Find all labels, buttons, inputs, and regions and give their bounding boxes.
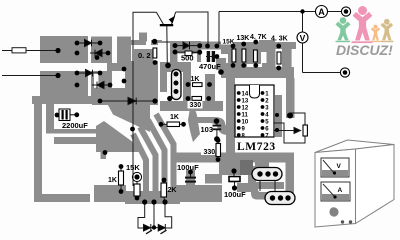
svg-text:15K: 15K bbox=[223, 39, 235, 46]
svg-text:103: 103 bbox=[201, 125, 214, 134]
svg-text:2K: 2K bbox=[168, 187, 177, 194]
svg-text:100uF: 100uF bbox=[177, 163, 199, 172]
svg-text:12: 12 bbox=[242, 105, 249, 111]
svg-text:2200uF: 2200uF bbox=[62, 121, 88, 130]
svg-text:LM723: LM723 bbox=[237, 141, 276, 153]
svg-text:330: 330 bbox=[190, 102, 202, 109]
svg-text:14: 14 bbox=[242, 91, 249, 97]
svg-text:A: A bbox=[318, 7, 325, 17]
svg-text:15K: 15K bbox=[126, 163, 140, 172]
svg-text:1K: 1K bbox=[108, 177, 117, 184]
svg-text:0. 2: 0. 2 bbox=[138, 51, 151, 60]
svg-text:A: A bbox=[338, 187, 343, 194]
svg-text:470uF: 470uF bbox=[199, 62, 221, 71]
svg-text:1K: 1K bbox=[191, 76, 200, 83]
svg-text:330: 330 bbox=[204, 149, 216, 156]
svg-text:4. 3K: 4. 3K bbox=[271, 36, 288, 43]
svg-text:4. 7K: 4. 7K bbox=[250, 34, 267, 41]
svg-text:11: 11 bbox=[242, 112, 249, 118]
svg-text:DISCUZ!: DISCUZ! bbox=[336, 42, 393, 58]
svg-text:10: 10 bbox=[242, 119, 249, 125]
svg-text:V: V bbox=[337, 163, 342, 170]
svg-text:13K: 13K bbox=[237, 35, 250, 42]
svg-text:500: 500 bbox=[181, 54, 194, 63]
svg-text:1K: 1K bbox=[170, 114, 179, 121]
svg-text:100uF: 100uF bbox=[224, 190, 246, 199]
svg-text:V: V bbox=[300, 33, 306, 43]
svg-text:13: 13 bbox=[242, 98, 249, 104]
